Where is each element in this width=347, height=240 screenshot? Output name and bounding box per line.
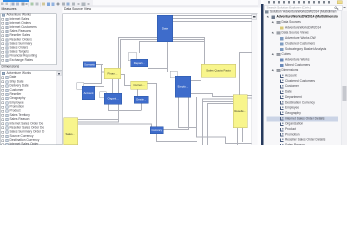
table DimDepartmentGroup: [131, 59, 149, 67]
toolbar icons: [1, 3, 4, 6]
Measures header: [2, 8, 17, 12]
table FactResellerSales: [233, 95, 248, 129]
table DimDestinationCurrency: [134, 96, 149, 104]
left pane background: [0, 7, 63, 146]
diagram panel: [63, 14, 258, 146]
Data Source View header: [64, 8, 91, 12]
diagram v-scrollbar: [252, 14, 258, 145]
table DimScenario: [83, 62, 96, 68]
table FactSalesQuota: [201, 64, 236, 78]
table FactFinance: [104, 68, 121, 79]
active tab blue bar: [3, 0, 29, 2]
wire: currency bottom routing to right edge: [156, 134, 157, 142]
dimensions list box: [0, 71, 62, 146]
Solution Explorer tree rows: [0, 0, 347, 1]
table FactCurrencyRate: [131, 81, 148, 90]
SE search box: [265, 5, 343, 11]
dimensions tree rows: [0, 0, 347, 1]
dimensions scrollbar: [57, 71, 63, 145]
measures list box: [0, 14, 57, 66]
table DimEmployee: [175, 76, 191, 98]
measures tree rows: [0, 0, 347, 1]
SE scrollbar: [342, 11, 347, 145]
solution explorer background: [264, 0, 347, 145]
Dimensions header: [2, 65, 20, 69]
SE selected row highlight (Internet Sales Order Details): [267, 116, 339, 121]
top toolbar strip: [0, 0, 261, 8]
table DimCurrency: [150, 127, 164, 135]
table DimAccount: [82, 86, 95, 100]
table DimOrganization: [104, 93, 122, 105]
table FactSalesSummary: [64, 118, 79, 146]
Solution Explorer toolbar icons: [0, 0, 347, 1]
table DimDate: [10, 76, 17, 80]
diagram contents: connector wires, self-join loops, tables: [0, 0, 347, 1]
navy splitter bar: [261, 4, 264, 145]
